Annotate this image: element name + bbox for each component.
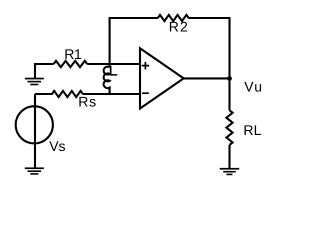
wire ground to R1	[35, 64, 54, 79]
svg-text:2: 2	[180, 18, 188, 34]
svg-text:L: L	[254, 122, 262, 138]
resistor Rs	[35, 91, 83, 97]
wire Vs to Rs	[34, 94, 36, 106]
ground (right, RL)	[220, 168, 240, 175]
resistor R1	[54, 61, 88, 67]
ground (left, R1)	[25, 78, 44, 86]
svg-text:s: s	[58, 138, 65, 154]
svg-text:1: 1	[74, 46, 82, 62]
svg-text:V: V	[244, 79, 254, 95]
op-amp - input sign	[142, 92, 149, 94]
resistor R2	[158, 15, 189, 21]
wire top-left vertical from node A up to feedback line	[110, 18, 158, 67]
wire through source Vs to ground	[34, 106, 36, 168]
svg-text:u: u	[254, 79, 262, 95]
label L	[110, 66, 117, 76]
ground (bottom, Vs)	[25, 167, 44, 174]
voltage source Vs	[16, 106, 53, 143]
svg-text:R: R	[169, 18, 179, 34]
junction dot output node	[227, 76, 232, 81]
wire RL to ground	[228, 145, 230, 169]
svg-text:R: R	[64, 46, 74, 62]
op-amp U1	[140, 48, 184, 108]
op-amp output wire	[184, 77, 230, 79]
wire R1 to op-amp + input (node A)	[87, 63, 140, 65]
svg-text:R: R	[243, 122, 253, 138]
inductor L between node A and node B	[104, 67, 110, 94]
svg-text:R: R	[78, 93, 88, 109]
wire top-right to output node	[188, 18, 229, 110]
wire Rs to op-amp - input (node B)	[83, 93, 140, 95]
resistor RL	[226, 110, 232, 145]
op-amp + input sign	[142, 62, 150, 93]
svg-text:s: s	[89, 93, 96, 109]
